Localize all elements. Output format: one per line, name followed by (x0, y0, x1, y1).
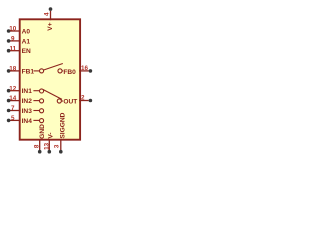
svg-text:FB0: FB0 (63, 69, 76, 76)
pin 3 SIGGND bottom (53, 112, 66, 153)
wire FB0 stub (62, 70, 63, 72)
pin 10 A0 (7, 26, 31, 36)
wire FB1 stub (34, 70, 40, 72)
svg-text:5: 5 (11, 115, 15, 122)
pin 16 FB0 (63, 65, 92, 76)
pin 11 EN (7, 45, 31, 55)
svg-text:16: 16 (81, 65, 89, 72)
pin 7 IN3 (7, 105, 32, 115)
svg-text:IN1: IN1 (22, 88, 33, 95)
svg-text:IN2: IN2 (22, 98, 33, 105)
svg-text:A0: A0 (22, 28, 31, 35)
pin 13 V- bottom (43, 132, 54, 153)
switch S2 wiper IN1-OUT (43, 90, 62, 100)
pin 14 IN2 (7, 95, 32, 105)
node IN3 contact (40, 109, 44, 113)
svg-text:7: 7 (11, 105, 15, 112)
svg-text:8: 8 (34, 144, 41, 148)
svg-text:13: 13 (43, 142, 50, 150)
svg-text:2: 2 (81, 95, 85, 102)
pin 8 GND bottom (34, 124, 47, 154)
svg-text:V-: V- (48, 132, 55, 138)
svg-text:A1: A1 (22, 38, 31, 45)
svg-text:IN3: IN3 (22, 108, 33, 115)
IC body U1 (20, 19, 80, 139)
pin 12 IN1 (7, 85, 32, 95)
svg-text:14: 14 (9, 95, 17, 102)
svg-text:3: 3 (53, 144, 60, 148)
svg-text:OUT: OUT (63, 99, 77, 106)
svg-text:FB1: FB1 (22, 68, 35, 75)
svg-text:9: 9 (11, 36, 15, 43)
wire IN4 stub (33, 119, 39, 121)
node IN1 contact (40, 89, 44, 93)
node FB0 contact (58, 69, 62, 73)
wire OUT stub (61, 100, 63, 102)
pin 9 A1 (7, 36, 31, 46)
node OUT contact (57, 99, 61, 103)
pin 2 OUT (63, 95, 92, 106)
svg-text:12: 12 (9, 85, 17, 92)
wire IN3 stub (33, 110, 39, 112)
switch S1 lever FB1-FB0 (43, 64, 63, 71)
wire IN2 stub (33, 100, 39, 102)
pin 18 FB1 (7, 66, 35, 76)
svg-text:GND: GND (39, 124, 46, 139)
svg-text:11: 11 (9, 45, 16, 52)
pin 5 IN4 (7, 115, 32, 125)
node IN4 contact (40, 119, 44, 123)
svg-text:SIGGND: SIGGND (60, 112, 67, 138)
svg-text:IN4: IN4 (22, 118, 33, 125)
svg-text:V+: V+ (47, 22, 54, 30)
pin 4 V+ top (43, 7, 54, 30)
svg-text:18: 18 (9, 66, 17, 73)
svg-text:EN: EN (22, 48, 31, 55)
node FB1 contact (40, 69, 44, 73)
svg-text:10: 10 (9, 26, 17, 33)
wire IN1 stub (33, 90, 39, 92)
node IN2 contact (40, 99, 44, 103)
svg-text:4: 4 (43, 12, 50, 16)
